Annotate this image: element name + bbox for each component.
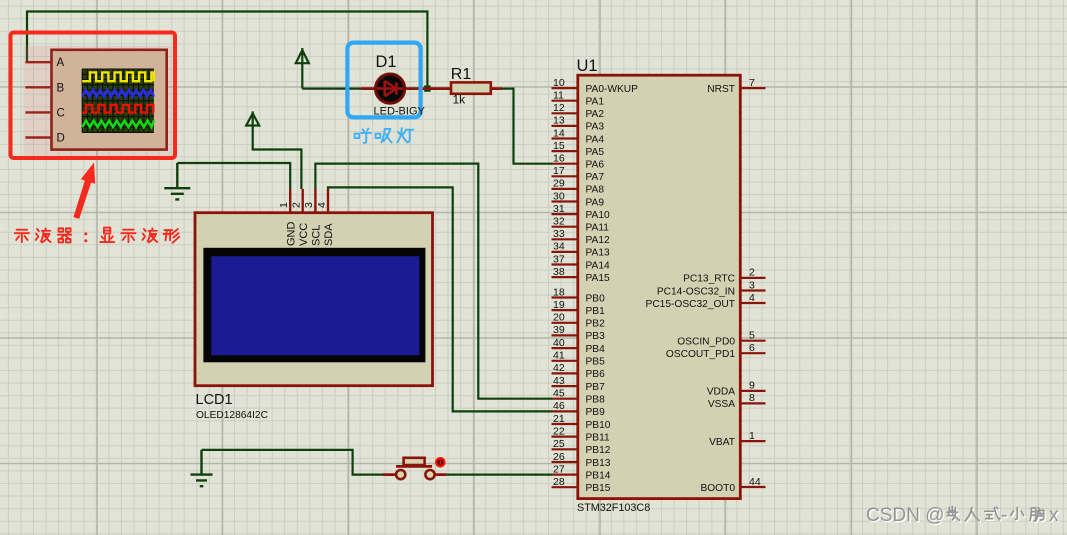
resistor R1 leads xyxy=(442,87,503,90)
svg-text:2: 2 xyxy=(749,267,755,279)
svg-text:1k: 1k xyxy=(453,93,467,107)
svg-text:PC15-OSC32_OUT: PC15-OSC32_OUT xyxy=(646,299,735,310)
svg-text:PB6: PB6 xyxy=(586,369,606,380)
button red actuator marker xyxy=(436,458,444,466)
svg-text:4: 4 xyxy=(749,292,755,304)
selection tint overlay xyxy=(23,46,171,156)
svg-text:CSDN @: CSDN @ xyxy=(866,505,944,526)
svg-text:PB11: PB11 xyxy=(586,432,610,443)
ground symbol G1 (LCD) xyxy=(164,163,190,199)
svg-text:VDDA: VDDA xyxy=(707,387,736,398)
red annotation arrow xyxy=(73,163,95,219)
svg-text:18: 18 xyxy=(553,286,565,298)
svg-text:10: 10 xyxy=(553,77,565,89)
svg-text:OLED12864I2C: OLED12864I2C xyxy=(196,410,268,421)
svg-text:R1: R1 xyxy=(451,66,472,83)
svg-text:PA13: PA13 xyxy=(586,248,610,259)
svg-text:21: 21 xyxy=(553,413,565,425)
U1 chip body xyxy=(578,75,741,498)
svg-text:43: 43 xyxy=(553,375,565,387)
svg-text:15: 15 xyxy=(553,140,565,152)
oscilloscope screen xyxy=(82,69,154,132)
blue highlight box (LED) xyxy=(347,43,420,118)
svg-text:11: 11 xyxy=(553,90,564,102)
svg-text:PB0: PB0 xyxy=(586,293,606,304)
svg-text:PA0-WKUP: PA0-WKUP xyxy=(586,84,639,95)
svg-text:20: 20 xyxy=(553,312,565,324)
svg-text:LED-BIGY: LED-BIGY xyxy=(374,106,426,118)
svg-text:40: 40 xyxy=(553,337,565,349)
svg-text:D: D xyxy=(57,133,65,145)
svg-text:PA11: PA11 xyxy=(586,223,610,234)
svg-text:9: 9 xyxy=(749,380,755,392)
wire: LCD GND pin to ground xyxy=(177,163,290,189)
svg-text:33: 33 xyxy=(553,228,565,240)
svg-text:46: 46 xyxy=(553,400,565,412)
svg-text:22: 22 xyxy=(553,425,565,437)
svg-text:GND: GND xyxy=(285,222,297,247)
LED D1 leads xyxy=(361,87,442,90)
wire: LCD SDA to U1 PB9 xyxy=(328,187,552,411)
svg-text:32: 32 xyxy=(553,216,565,228)
svg-text:OSCIN_PD0: OSCIN_PD0 xyxy=(677,337,735,348)
svg-text:NRST: NRST xyxy=(707,84,735,95)
svg-text:13: 13 xyxy=(553,115,565,127)
svg-text:42: 42 xyxy=(553,362,565,374)
svg-text:PB8: PB8 xyxy=(586,395,606,406)
waveform channel A (yellow square) xyxy=(82,72,154,81)
waveform channel C (red square) xyxy=(82,105,154,113)
svg-text:U1: U1 xyxy=(577,57,598,75)
wire: junction to R1 left xyxy=(427,87,441,89)
svg-text:7: 7 xyxy=(749,77,755,89)
svg-text:PB10: PB10 xyxy=(586,420,611,431)
LED D1 diode symbol xyxy=(377,81,403,96)
svg-text:C: C xyxy=(57,107,65,119)
svg-text:VSSA: VSSA xyxy=(708,399,735,410)
LCD1 body xyxy=(195,213,433,386)
svg-text:14: 14 xyxy=(553,127,565,139)
svg-text:PB14: PB14 xyxy=(586,470,611,481)
svg-text:VBAT: VBAT xyxy=(709,437,735,448)
U1 right pin stubs xyxy=(740,88,765,487)
svg-text:PA6: PA6 xyxy=(586,160,605,171)
waveform channel D (green sine) xyxy=(82,121,154,127)
LED D1 body xyxy=(376,74,405,103)
svg-text:x: x xyxy=(1049,505,1059,526)
button contacts xyxy=(396,470,405,479)
svg-text:PB12: PB12 xyxy=(586,445,611,456)
svg-text:OSCOUT_PD1: OSCOUT_PD1 xyxy=(666,349,735,360)
svg-text:BOOT0: BOOT0 xyxy=(700,483,735,494)
power terminal P2 (LCD VCC) xyxy=(246,113,259,125)
svg-text:PB5: PB5 xyxy=(586,357,606,368)
svg-text:5: 5 xyxy=(749,330,755,342)
svg-text:PA5: PA5 xyxy=(586,147,605,158)
svg-text:8: 8 xyxy=(749,392,755,404)
svg-text:1: 1 xyxy=(278,202,290,208)
annotation text: 示波器：显示波形 (red) xyxy=(15,228,180,243)
wire: oscilloscope A to LED/R1 junction (top run) xyxy=(27,12,427,89)
svg-text:PA2: PA2 xyxy=(586,109,605,120)
wire: ground to button left xyxy=(202,450,383,475)
svg-text:PA14: PA14 xyxy=(586,260,610,271)
svg-text:17: 17 xyxy=(553,165,565,177)
svg-text:4: 4 xyxy=(316,202,328,208)
svg-text:PA15: PA15 xyxy=(586,273,610,284)
svg-text:16: 16 xyxy=(553,153,565,165)
resistor R1 body xyxy=(451,82,491,93)
power terminal P1 (LED anode supply) xyxy=(296,50,309,63)
svg-text:28: 28 xyxy=(553,476,565,488)
svg-text:PC13_RTC: PC13_RTC xyxy=(683,274,735,285)
svg-text:25: 25 xyxy=(553,438,565,450)
ground symbol G2 (button) xyxy=(191,450,213,486)
svg-text:29: 29 xyxy=(553,178,565,190)
wire: button right to U1 PB14 xyxy=(446,474,552,476)
svg-text:STM32F103C8: STM32F103C8 xyxy=(577,502,650,514)
oscilloscope body xyxy=(52,50,167,150)
svg-text:38: 38 xyxy=(553,266,565,278)
svg-text:1: 1 xyxy=(749,430,755,442)
svg-text:SCL: SCL xyxy=(311,225,323,246)
svg-text:30: 30 xyxy=(553,190,565,202)
svg-text:PB2: PB2 xyxy=(586,319,606,330)
svg-text:26: 26 xyxy=(553,451,565,463)
button leads xyxy=(383,473,447,476)
svg-text:PB15: PB15 xyxy=(586,483,611,494)
svg-text:3: 3 xyxy=(749,279,755,291)
svg-text:27: 27 xyxy=(553,463,565,475)
svg-text:PA3: PA3 xyxy=(586,122,605,133)
svg-text:45: 45 xyxy=(553,388,565,400)
svg-text:-: - xyxy=(1001,505,1007,526)
svg-text:LCD1: LCD1 xyxy=(196,392,233,408)
wire: R1 right to U1 PA6 xyxy=(502,89,553,164)
svg-text:PA10: PA10 xyxy=(586,210,610,221)
svg-text:PB9: PB9 xyxy=(586,407,606,418)
svg-text:PA7: PA7 xyxy=(586,172,605,183)
svg-text:31: 31 xyxy=(553,203,565,215)
svg-text:PB1: PB1 xyxy=(586,306,606,317)
button cap xyxy=(404,458,425,465)
red selection highlight box xyxy=(11,33,176,159)
oscilloscope pins A-D stubs xyxy=(25,62,51,137)
LCD1 blue screen xyxy=(211,256,419,355)
svg-text:2: 2 xyxy=(291,202,303,208)
svg-text:PA12: PA12 xyxy=(586,235,610,246)
svg-text:PA8: PA8 xyxy=(586,185,605,196)
svg-text:PA4: PA4 xyxy=(586,134,605,145)
svg-text:PA9: PA9 xyxy=(586,197,605,208)
svg-text:PB4: PB4 xyxy=(586,344,606,355)
svg-text:37: 37 xyxy=(553,253,565,265)
svg-text:44: 44 xyxy=(749,476,761,488)
svg-text:19: 19 xyxy=(553,299,565,311)
svg-text:SDA: SDA xyxy=(323,223,335,246)
U1 left pin stubs xyxy=(552,88,578,487)
node: junction dot xyxy=(424,85,430,91)
svg-text:PB7: PB7 xyxy=(586,382,606,393)
annotation text: 呼吸灯 (blue) xyxy=(355,128,414,143)
svg-text:41: 41 xyxy=(553,350,565,362)
svg-text:VCC: VCC xyxy=(298,223,310,246)
waveform channel B (blue sine) xyxy=(82,90,154,97)
wire: LED cathode to junction xyxy=(419,87,427,89)
svg-text:34: 34 xyxy=(553,241,565,253)
wire: power P1 to LED anode xyxy=(302,87,361,89)
LCD1 pin stubs xyxy=(290,189,328,213)
svg-text:PB13: PB13 xyxy=(586,458,611,469)
svg-text:3: 3 xyxy=(303,202,315,208)
svg-text:12: 12 xyxy=(553,102,565,114)
watermark CSDN @嵌入式-小鹏x xyxy=(867,506,1060,527)
svg-text:PB3: PB3 xyxy=(586,331,606,342)
wire: LCD SCL to U1 PB8 xyxy=(315,164,552,399)
svg-text:6: 6 xyxy=(749,342,755,354)
LCD1 screen black frame xyxy=(203,248,425,362)
svg-text:B: B xyxy=(57,82,65,94)
svg-text:A: A xyxy=(57,57,65,69)
svg-text:PC14-OSC32_IN: PC14-OSC32_IN xyxy=(657,286,735,297)
svg-text:PA1: PA1 xyxy=(586,97,605,108)
svg-text:D1: D1 xyxy=(376,53,397,71)
svg-text:39: 39 xyxy=(553,324,565,336)
